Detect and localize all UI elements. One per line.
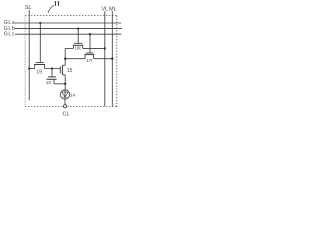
wire: gate line GLc: [15, 33, 121, 35]
transistor 19: [34, 63, 45, 76]
wire: 16t right drain to VL: [83, 47, 105, 49]
node: junction SL / 19 source: [28, 67, 30, 69]
pixel boundary dashed box 11: [25, 15, 117, 17]
svg-text:SL: SL: [25, 5, 32, 11]
wire: gate line GLa: [15, 22, 121, 24]
wire: monitor line ML: [111, 11, 113, 106]
node: junction drain node / 17t branch: [64, 58, 66, 60]
svg-text:15: 15: [67, 68, 73, 74]
node: junction GLa / gate of 19: [39, 22, 41, 24]
svg-text:16t: 16t: [74, 45, 81, 50]
wire: gate of transistor 16t: [77, 29, 79, 43]
node: junction capacitor 18 / OLED anode: [64, 83, 66, 85]
svg-text:17t: 17t: [86, 58, 93, 63]
capacitor 18: [46, 69, 65, 86]
wire: data line SL: [28, 10, 30, 101]
node: junction 17t / ML: [111, 58, 113, 60]
terminal: open circle on cathode line CL: [63, 105, 66, 108]
transistor 15 (drive transistor): [60, 65, 72, 75]
wire: gate of transistor 19: [39, 23, 41, 62]
transistor 17t: [85, 53, 95, 63]
node: junction 16t / VL: [104, 47, 106, 49]
wire: power line VL: [104, 11, 106, 106]
wire: 16t left source to node line: [65, 47, 73, 49]
node: junction gate of 15 / capacitor 18: [51, 67, 53, 69]
svg-text:19: 19: [36, 69, 42, 75]
svg-text:CL: CL: [63, 111, 70, 117]
node: junction GLc / gate of 17t: [89, 33, 91, 35]
svg-text:18: 18: [46, 80, 52, 85]
OLED diode 14: [60, 90, 75, 99]
svg-text:GLc: GLc: [4, 31, 15, 37]
wire: node to 17t left: [65, 58, 85, 60]
wire: gate line GLb: [15, 28, 122, 30]
wire: 17t right to ML: [94, 58, 113, 60]
wire: 15 source down to OLED anode: [64, 75, 66, 90]
node: junction GLb / gate of 16t: [77, 27, 79, 29]
svg-text:ML: ML: [109, 6, 117, 12]
wire: drain node vertical (16t/17t to transistor 15): [64, 48, 66, 65]
svg-text:14: 14: [70, 93, 76, 99]
transistor 16t: [73, 43, 84, 50]
wire: gate of transistor 17t: [89, 34, 91, 53]
wire: OLED cathode to CL terminal: [64, 99, 66, 105]
leader line for 11: [48, 5, 54, 13]
wire: SL to 19: [29, 68, 35, 70]
reference numeral 11: [55, 1, 57, 6]
wire: 19 drain to gate of 15: [44, 68, 60, 70]
